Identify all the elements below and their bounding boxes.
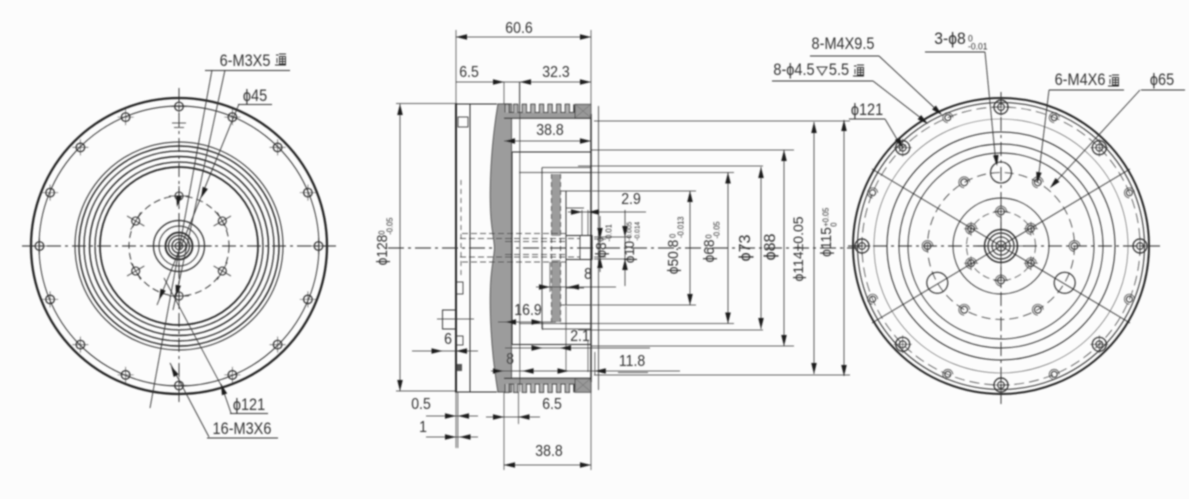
svg-text:8-ϕ4.5: 8-ϕ4.5 [773,61,814,79]
svg-text:ϕ68: ϕ68 [701,239,717,262]
svg-text:ϕ10: ϕ10 [622,240,637,263]
dim phi128 [374,104,457,392]
svg-text:11.8: 11.8 [619,352,645,370]
left view bolt-ring circle [39,106,319,386]
right view inner 6 tapped holes [964,205,1038,288]
svg-text:6.5: 6.5 [542,395,562,413]
left view 6-M3X5 holes on phi45 circle [127,186,231,306]
svg-text:-0.014: -0.014 [634,222,641,241]
dim 6.5 bottom [486,392,562,424]
dim phi88 [762,150,787,346]
left view leader 6-M3X5 line a [150,70,212,408]
svg-text:6.5: 6.5 [459,63,479,81]
svg-text:-0.01: -0.01 [604,224,613,241]
left view horizontal centerline [22,245,338,247]
dim 38.8 bottom [504,382,591,470]
svg-text:60.6: 60.6 [505,19,532,37]
left view label 6-M3X5 [205,52,290,70]
svg-text:38.8: 38.8 [535,442,562,460]
dim 16.9 [498,301,556,330]
label 6-M4X6 [1036,71,1124,183]
left view label phi121 [230,396,268,414]
dim 6.5 and 32.3 [456,63,591,112]
middle internal section lines [512,152,591,345]
right view horizontal centerline [848,245,1160,247]
svg-text:16.9: 16.9 [514,301,541,319]
right view diagonal centerline a [872,169,1130,323]
left view small tick mark [172,123,186,128]
svg-text:8: 8 [584,265,592,283]
label phi121 right [849,101,903,148]
svg-text:ϕ8: ϕ8 [593,242,609,257]
middle hidden shaft lines [460,234,580,263]
svg-text:2.9: 2.9 [621,190,641,208]
right view hub cross [977,222,1025,270]
dim phi114 [790,122,817,374]
left view leader phi121 [164,278,231,413]
dim 60.6 [456,19,591,104]
left view face ring circles [75,142,283,350]
left view label 16-M3X6 [207,420,278,438]
left view vertical centerline [178,88,180,406]
right view face circles [874,119,1128,373]
left view leader phi45 [157,104,239,305]
dim 1 [419,418,478,440]
svg-text:6: 6 [444,330,452,348]
svg-text:-0.05: -0.05 [385,217,394,235]
dim 8 and 11.8 row [491,82,680,392]
middle bottom heat-sink fins [504,378,591,392]
dim phi73 [737,167,764,329]
svg-text:ϕ121: ϕ121 [851,101,883,119]
svg-text:1: 1 [419,418,427,436]
right view 3 phi8 holes [927,162,1075,293]
dim 8 shaft [536,262,616,292]
left view hub circles [154,221,205,272]
middle top heat-sink fins [504,104,591,118]
dim 2.9 [568,190,646,236]
right view vertical centerline [1000,92,1002,404]
svg-text:8-M4X9.5: 8-M4X9.5 [812,35,875,53]
svg-text:ϕ73: ϕ73 [737,235,754,262]
left view leader 6-M3X5 line b [173,70,225,310]
middle flange small features [437,117,474,371]
svg-text:ϕ114±0.05: ϕ114±0.05 [790,216,806,281]
right view bolt circle phi121 [862,107,1140,385]
svg-text:ϕ128: ϕ128 [374,235,390,266]
dim 0.5 [411,392,478,448]
svg-text:ϕ45: ϕ45 [243,87,267,105]
dim phi10 [622,210,642,286]
dim phi50.8 [665,191,693,305]
dim phi8 shaft [593,216,614,272]
right view dashed inner bolt circle [967,212,1036,281]
svg-text:0: 0 [829,222,838,227]
svg-text:-0.05: -0.05 [712,221,721,239]
svg-text:0.5: 0.5 [411,395,431,413]
left view outer circle [31,98,327,394]
left view label phi45 [238,87,272,105]
svg-text:8: 8 [506,350,514,368]
svg-text:6-M4X6: 6-M4X6 [1055,71,1106,89]
left view 16-M3X6 bolt holes [32,99,327,394]
svg-text:ϕ65: ϕ65 [1150,71,1174,89]
left view leader 16-M3X6 [170,363,209,437]
right view outer circles [853,98,1149,394]
svg-text:ϕ121: ϕ121 [233,396,265,414]
left view dashed bolt circle phi45 [129,196,229,296]
label phi65 [1050,71,1185,188]
dim 2.1 [505,306,650,372]
svg-text:-0.013: -0.013 [676,216,685,238]
svg-text:38.8: 38.8 [536,121,563,139]
svg-text:ϕ115: ϕ115 [818,227,834,257]
dim 6 left [412,330,478,354]
middle body right edge [591,106,599,390]
middle axis centerline [388,247,858,249]
svg-text:6-M3X5: 6-M3X5 [220,52,271,70]
label 3-phi8 [925,30,999,166]
right view dashed circle phi65 [928,173,1075,320]
svg-text:16-M3X6: 16-M3X6 [213,420,272,438]
right view inner face circle [953,198,1049,294]
svg-text:ϕ50.8: ϕ50.8 [665,240,681,275]
label 8-M4X9.5 [810,35,942,115]
dim phi68 [701,173,731,324]
left view hub cross lines [146,213,212,279]
svg-text:5.5: 5.5 [829,61,849,79]
middle flange plate [455,104,497,392]
middle shaft [566,235,592,260]
dim 38.8 top [504,121,591,144]
dim phi115 [818,120,847,376]
svg-text:-0.01: -0.01 [968,41,988,51]
right view 6-M4X6 holes [922,177,1080,315]
right view hub circles [985,230,1018,263]
middle tapered housing wall section [490,104,511,392]
svg-text:ϕ88: ϕ88 [762,234,779,261]
svg-text:32.3: 32.3 [542,63,569,81]
label 8-phi4.5 [772,61,928,124]
right view 8 tapped M4 holes [868,113,1135,380]
svg-text:3-ϕ8: 3-ϕ8 [934,30,965,48]
right view 8 counterbore holes [853,98,1149,394]
svg-text:-0.005: -0.005 [626,222,633,241]
right view diagonal centerline b [872,169,1130,323]
middle internal hatched wall [552,174,561,322]
ext lines right side [560,121,850,375]
